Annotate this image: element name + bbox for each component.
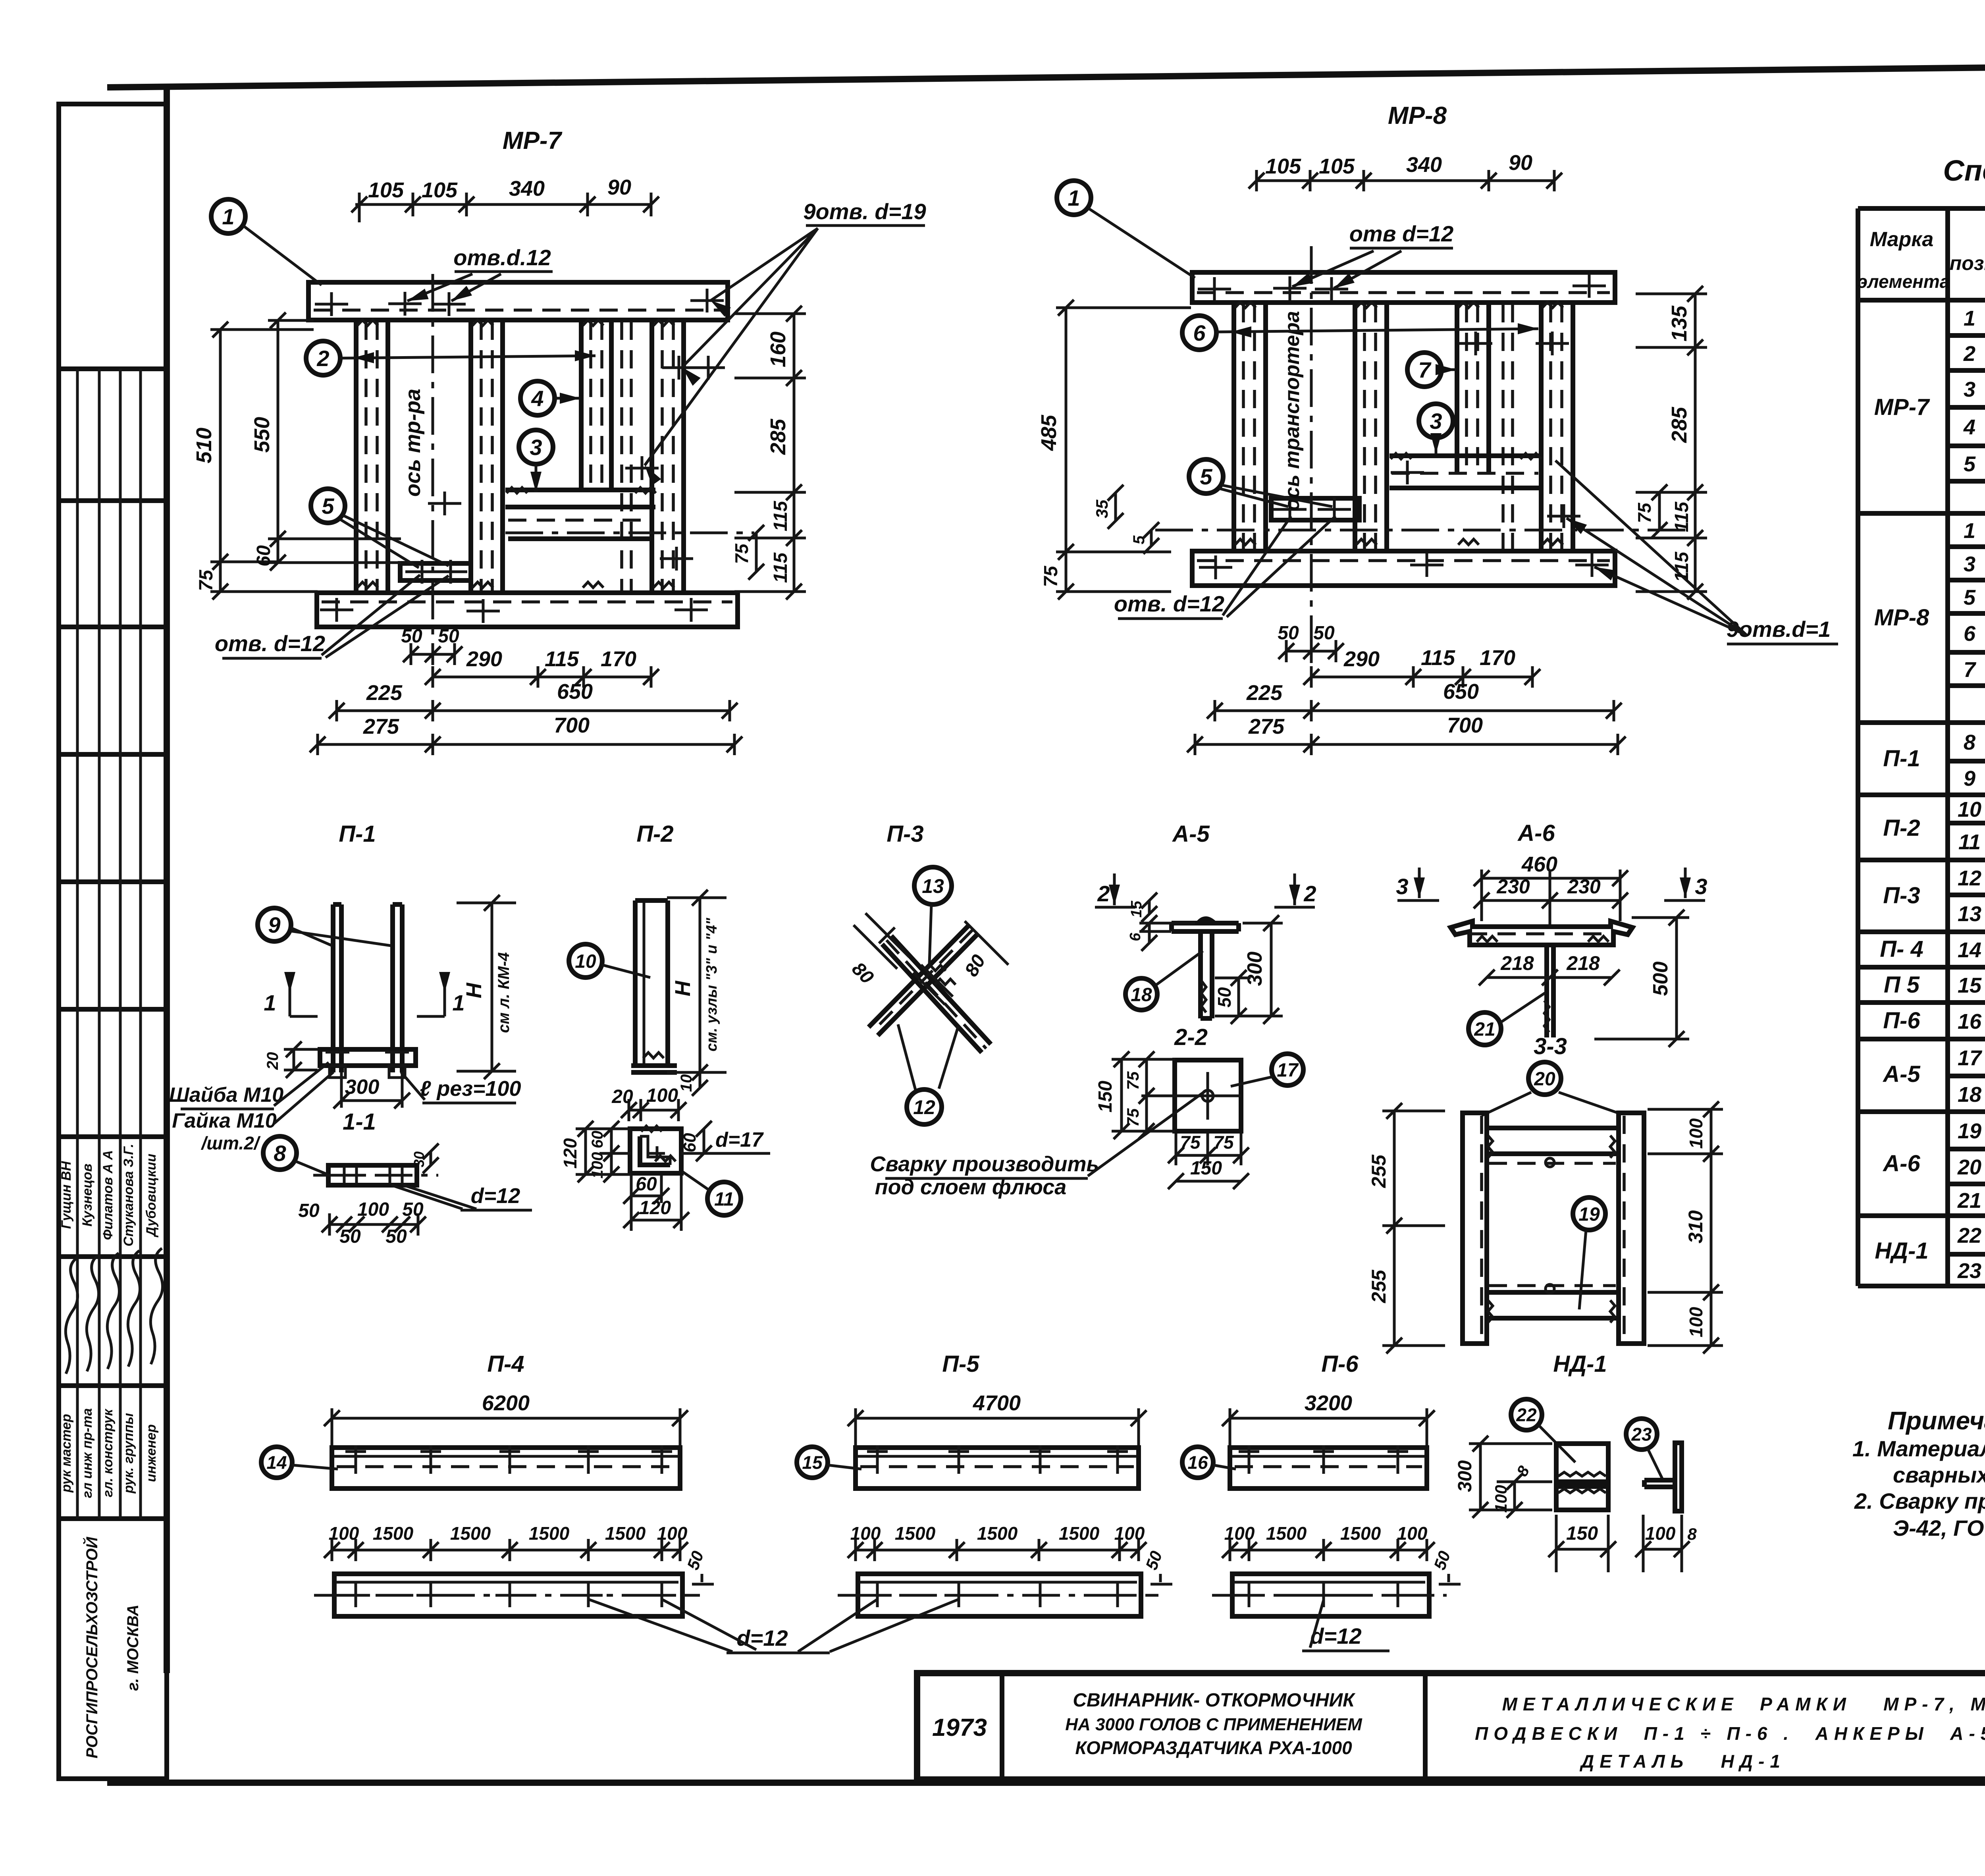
- P-1 dim 300: [333, 1072, 410, 1109]
- svg-text:d=17: d=17: [715, 1128, 764, 1151]
- MP-8 member-3 bolt: [1391, 471, 1424, 474]
- svg-text:3: 3: [1964, 552, 1975, 576]
- svg-text:П-1: П-1: [339, 821, 376, 847]
- svg-text:г. МОСКВА: г. МОСКВА: [124, 1604, 142, 1691]
- svg-text:МЕТАЛЛИЧЕСКИЕ РАМКИ МР-7, М: МЕТАЛЛИЧЕСКИЕ РАМКИ МР-7, МР-8.: [1502, 1694, 1985, 1714]
- MP-8 leader circle 1: [1057, 181, 1195, 278]
- svg-text:20: 20: [1957, 1155, 1981, 1179]
- P-1 nuts and washers: [326, 1052, 409, 1078]
- svg-text:120: 120: [560, 1138, 580, 1168]
- svg-text:отв.d.12: отв.d.12: [453, 245, 551, 270]
- P-3 dim ticks and 80 labels: [848, 913, 1008, 988]
- svg-text:50: 50: [1142, 1548, 1166, 1572]
- svg-text:230: 230: [1496, 875, 1530, 898]
- P-3 leader circle 13: [914, 867, 952, 964]
- svg-text:75: 75: [196, 569, 217, 591]
- svg-text:16: 16: [1958, 1010, 1982, 1033]
- svg-text:1: 1: [1964, 519, 1975, 543]
- P-1 note l rez=100: [401, 1072, 521, 1103]
- svg-text:170: 170: [1480, 646, 1515, 670]
- A-6 3-3 holes: [1546, 1158, 1554, 1293]
- svg-text:275: 275: [363, 715, 399, 738]
- P-1 small dim 20 left: [264, 1041, 318, 1078]
- svg-text:3200: 3200: [1305, 1391, 1352, 1415]
- svg-text:15: 15: [1958, 974, 1982, 997]
- P-1 plate thickness dim: [411, 1143, 439, 1173]
- svg-text:90: 90: [1509, 151, 1532, 175]
- table marka element cells: [1874, 394, 1930, 1264]
- svg-text:100: 100: [646, 1085, 678, 1106]
- П-5 thickness dim 50: [1142, 1548, 1172, 1584]
- svg-text:сварных конструкций, ГОСТ 38: сварных конструкций, ГОСТ 380-71.: [1893, 1462, 1985, 1487]
- MP-7 bottom plate pos.1: [317, 593, 738, 627]
- table grid: [1858, 208, 1985, 1286]
- svg-text:50: 50: [1313, 623, 1335, 644]
- MP-8 bottom dim row 225-650: [1207, 680, 1622, 721]
- svg-text:5: 5: [322, 494, 334, 519]
- svg-text:СВИНАРНИК- ОТКОРМОЧНИК: СВИНАРНИК- ОТКОРМОЧНИК: [1073, 1690, 1356, 1711]
- svg-text:1500: 1500: [1340, 1523, 1381, 1544]
- P-1 cross plate pos.8: [320, 1049, 416, 1066]
- A-5 section marks 2: [1095, 873, 1316, 907]
- MP-8 bottom dim row 290-115-170: [1303, 646, 1540, 688]
- svg-text:МР-7: МР-7: [503, 127, 563, 154]
- svg-text:255: 255: [1368, 1269, 1390, 1303]
- svg-text:5: 5: [1200, 464, 1212, 489]
- svg-text:А-5: А-5: [1172, 821, 1210, 847]
- svg-text:15: 15: [1128, 900, 1145, 918]
- svg-text:12: 12: [913, 1096, 935, 1118]
- svg-text:А-5: А-5: [1882, 1061, 1920, 1087]
- d=12 note for P-6: [1302, 1600, 1389, 1651]
- svg-text:18: 18: [1131, 984, 1152, 1005]
- svg-text:3-3: 3-3: [1534, 1033, 1567, 1059]
- svg-text:6: 6: [1193, 320, 1206, 345]
- svg-text:340: 340: [509, 177, 545, 201]
- A-6 dims 230/230: [1474, 870, 1628, 925]
- MP-7 left dimension 550/60: [250, 312, 401, 571]
- ND-1 dim 150: [1548, 1515, 1616, 1572]
- svg-text:3: 3: [1396, 874, 1408, 899]
- svg-text:285: 285: [766, 418, 790, 455]
- П-6 overall dim 3200: [1222, 1391, 1435, 1448]
- svg-text:МР-8: МР-8: [1874, 605, 1929, 630]
- P-1 bottom dims 50-100-50: [298, 1199, 426, 1247]
- svg-text:60: 60: [680, 1133, 700, 1152]
- svg-text:23: 23: [1631, 1424, 1652, 1445]
- svg-text:1500: 1500: [529, 1523, 570, 1544]
- A-5 small dims 15/6: [1127, 893, 1195, 951]
- svg-text:75: 75: [1213, 1132, 1234, 1153]
- svg-text:19: 19: [1958, 1119, 1981, 1143]
- table header text: [1858, 220, 1985, 295]
- MP-7 horizontal member pos.3: [505, 490, 655, 539]
- MP-8 hole note отв d=12 top: [1290, 221, 1453, 293]
- svg-text:Н: Н: [671, 981, 695, 997]
- P-3 plate pos.13: [913, 965, 956, 1005]
- MP-8 short post pos.7: [1457, 303, 1489, 472]
- MP-7 bottom mini dims 50/50: [401, 626, 463, 665]
- svg-text:135: 135: [1667, 305, 1691, 341]
- A-6 3-3 top rung pos.19: [1487, 1128, 1619, 1163]
- svg-text:115: 115: [770, 500, 791, 531]
- P-2 dims 20/100: [611, 1085, 686, 1121]
- MP-7 bottom plate bolts: [320, 598, 708, 623]
- svg-text:18: 18: [1958, 1083, 1981, 1107]
- MP-8 small dims 35 and 5: [1093, 485, 1159, 554]
- title block frame: [917, 1673, 1985, 1780]
- P-2 section square with angle pos.11: [630, 1126, 681, 1173]
- П-4 spacing dims: [324, 1523, 688, 1561]
- svg-text:460: 460: [1521, 852, 1557, 876]
- svg-text:8: 8: [274, 1141, 286, 1166]
- svg-text:105: 105: [1319, 154, 1355, 178]
- svg-text:20: 20: [1534, 1068, 1555, 1089]
- П-4 thickness dim 50: [683, 1548, 714, 1584]
- P-3 leader circle 12: [898, 1024, 958, 1124]
- A-5 leader circle 17: [1231, 1054, 1303, 1086]
- P-1 H dimension line: [457, 895, 516, 1079]
- svg-text:4: 4: [531, 386, 543, 411]
- ND-1 dim 100: [1492, 1474, 1552, 1518]
- svg-text:отв d=12: отв d=12: [1349, 221, 1454, 246]
- svg-text:100: 100: [329, 1523, 359, 1544]
- svg-text:Филатов А А: Филатов А А: [100, 1150, 116, 1240]
- svg-text:100: 100: [1114, 1523, 1145, 1544]
- A-5 rod pos.18: [1201, 931, 1212, 1018]
- stamp job titles (rotated): [59, 1408, 159, 1498]
- svg-text:1500: 1500: [450, 1523, 491, 1544]
- svg-text:300: 300: [345, 1076, 380, 1099]
- svg-text:6200: 6200: [482, 1391, 530, 1415]
- svg-text:75: 75: [1180, 1132, 1201, 1153]
- MP-7 right post pos.2: [652, 320, 684, 593]
- svg-text:d=12: d=12: [736, 1625, 788, 1650]
- svg-text:115: 115: [1421, 646, 1455, 670]
- svg-text:160: 160: [766, 332, 790, 367]
- MP-8 middle post pos.6: [1355, 303, 1387, 551]
- P-2 leader circle 11: [682, 1172, 741, 1215]
- svg-text:НД-1: НД-1: [1875, 1238, 1928, 1264]
- svg-text:510: 510: [192, 428, 216, 463]
- П-4 bar bottom view: [314, 1574, 700, 1616]
- svg-text:22: 22: [1516, 1405, 1537, 1425]
- A-5 leader circle 18: [1125, 951, 1203, 1010]
- MP-8 right side bolts: [1459, 332, 1580, 528]
- svg-text:50: 50: [339, 1226, 361, 1247]
- svg-text:5: 5: [1964, 586, 1976, 609]
- svg-text:90: 90: [607, 175, 631, 199]
- svg-text:10: 10: [575, 951, 596, 972]
- svg-text:см. узлы "3" и "4": см. узлы "3" и "4": [703, 918, 720, 1052]
- title block object name: [1065, 1690, 1363, 1758]
- П-6 thickness dim 50: [1430, 1548, 1461, 1584]
- svg-text:13: 13: [922, 875, 944, 897]
- MP-7 horizontal axis: [505, 532, 754, 534]
- П-5 bar bottom view: [838, 1574, 1158, 1616]
- svg-text:инженер: инженер: [144, 1424, 159, 1482]
- svg-text:50: 50: [1430, 1548, 1454, 1572]
- svg-text:20: 20: [611, 1086, 633, 1107]
- svg-text:1500: 1500: [373, 1523, 414, 1544]
- P-2 section dims left 120/60/100: [560, 1121, 631, 1182]
- A-6 3-3 bottom rung pos.19: [1487, 1286, 1619, 1323]
- svg-text:17: 17: [1958, 1046, 1983, 1070]
- MP-7 leader circle 1: [211, 199, 322, 285]
- svg-text:9: 9: [1964, 767, 1975, 791]
- svg-text:П-3: П-3: [1883, 883, 1920, 908]
- P-3 crossing bars pos.12: [869, 926, 991, 1053]
- svg-text:НД-1: НД-1: [1553, 1351, 1607, 1377]
- svg-text:50: 50: [298, 1200, 320, 1221]
- svg-text:700: 700: [554, 713, 590, 737]
- svg-text:9отв. d=19: 9отв. d=19: [803, 199, 926, 224]
- svg-text:75: 75: [1041, 565, 1062, 587]
- svg-text:МР-7: МР-7: [1874, 394, 1930, 420]
- MP-8 right dimension chain 135-285-115-115: [1636, 286, 1707, 600]
- svg-text:290: 290: [1343, 647, 1380, 671]
- A-5 top plate pos.17: [1172, 919, 1239, 931]
- svg-text:А-6: А-6: [1882, 1151, 1920, 1176]
- svg-text:75: 75: [1634, 502, 1655, 523]
- П-6 spacing dims: [1222, 1523, 1435, 1561]
- svg-text:4700: 4700: [973, 1391, 1021, 1415]
- A-6 hat channel pos.19/20 top view: [1451, 921, 1632, 945]
- svg-text:340: 340: [1406, 153, 1442, 177]
- svg-text:150: 150: [1190, 1158, 1222, 1179]
- svg-text:550: 550: [250, 417, 274, 453]
- MP-7 leader circle 3: [519, 430, 553, 492]
- svg-text:170: 170: [601, 647, 636, 671]
- svg-text:П-5: П-5: [942, 1351, 979, 1377]
- ND-1 dim 300: [1455, 1436, 1552, 1518]
- ND-1 leader circle 22: [1511, 1399, 1575, 1462]
- table row data: [1957, 307, 1985, 1283]
- svg-text:ПОДВЕСКИ П-1 ÷ П-6 . АНКЕРЫ: ПОДВЕСКИ П-1 ÷ П-6 . АНКЕРЫ А-5, А-6.: [1475, 1723, 1985, 1744]
- svg-text:35: 35: [1093, 499, 1111, 518]
- stamp organization text (rotated): [82, 1537, 142, 1758]
- svg-text:500: 500: [1649, 962, 1672, 996]
- svg-text:П- 4: П- 4: [1880, 936, 1923, 962]
- svg-text:8: 8: [1964, 731, 1975, 754]
- MP-8 bottom plate pos.1: [1192, 551, 1615, 586]
- A-5 base plate 2-2 view: [1141, 1060, 1241, 1131]
- svg-text:см л. КМ-4: см л. КМ-4: [495, 952, 513, 1033]
- MP-7 hidden angle dashed pair: [622, 322, 631, 592]
- svg-text:650: 650: [557, 680, 593, 704]
- svg-text:100: 100: [357, 1199, 389, 1220]
- svg-text:105: 105: [1265, 154, 1301, 178]
- svg-text:/шт.2/: /шт.2/: [200, 1133, 260, 1153]
- P-1 note Гайка М10: [172, 1072, 333, 1153]
- A-6 3-3 right angle pos.20: [1619, 1113, 1644, 1344]
- svg-text:1500: 1500: [1059, 1523, 1100, 1544]
- svg-text:Гущин ВН: Гущин ВН: [59, 1161, 74, 1229]
- svg-text:Гайка М10: Гайка М10: [172, 1109, 277, 1132]
- A-6 leader circle 19: [1573, 1197, 1605, 1309]
- svg-text:РОСГИПРОСЕЛЬХОЗСТРОЙ: РОСГИПРОСЕЛЬХОЗСТРОЙ: [82, 1537, 101, 1758]
- svg-text:100: 100: [1686, 1118, 1706, 1149]
- svg-text:3: 3: [530, 435, 542, 460]
- MP-7 leader circle 4: [520, 381, 580, 415]
- MP-7 hole note отв. d=12 bottom: [215, 575, 449, 658]
- svg-text:19: 19: [1578, 1204, 1600, 1225]
- svg-text:Марка: Марка: [1870, 228, 1934, 251]
- stamp names (rotated): [59, 1144, 159, 1247]
- A-5 dim 300: [1215, 915, 1283, 1024]
- svg-text:100: 100: [657, 1523, 688, 1544]
- svg-text:1: 1: [264, 990, 276, 1015]
- svg-text:КОРМОРАЗДАТЧИКА РХА-1000: КОРМОРАЗДАТЧИКА РХА-1000: [1075, 1737, 1352, 1758]
- A-5 dim 50: [1214, 970, 1251, 1024]
- svg-text:2: 2: [1963, 342, 1975, 366]
- MP-8 weld seams: [1235, 302, 1563, 545]
- svg-text:80: 80: [961, 951, 990, 980]
- MP-8 bottom plate bolts: [1199, 553, 1609, 579]
- A-6 leader circle 21: [1469, 993, 1546, 1045]
- svg-text:225: 225: [366, 681, 403, 705]
- A-5 2-2 left dims 150/75/75: [1095, 1051, 1175, 1139]
- P-2 section dims bottom 60/120: [623, 1174, 689, 1231]
- svg-text:100: 100: [1645, 1523, 1676, 1544]
- MP-8 right post pos.6: [1541, 303, 1573, 551]
- svg-text:50: 50: [401, 626, 422, 647]
- MP-8 top plate bolts: [1198, 274, 1606, 301]
- svg-text:под слоем флюса: под слоем флюса: [875, 1175, 1067, 1199]
- svg-text:гл. конструк: гл. конструк: [100, 1408, 116, 1497]
- MP-7 vertical axis (ось тр-ра): [401, 274, 433, 659]
- svg-text:6: 6: [1127, 933, 1144, 941]
- svg-text:21: 21: [1957, 1189, 1981, 1213]
- П-4 angle bar top view pos.14: [332, 1445, 680, 1488]
- svg-text:отв. d=12: отв. d=12: [215, 631, 325, 656]
- MP-7 right side bolt holes: [625, 356, 725, 571]
- MP-7 bottom dim row 290-115-170: [425, 647, 659, 688]
- svg-text:1. Материал конструкций- стал: 1. Материал конструкций- сталь марки ВСт…: [1852, 1436, 1985, 1461]
- svg-text:1500: 1500: [605, 1523, 646, 1544]
- svg-text:275: 275: [1248, 715, 1285, 738]
- svg-text:100: 100: [1397, 1523, 1428, 1544]
- P-1 note Шайба М10: [169, 1062, 329, 1109]
- svg-text:75: 75: [1124, 1071, 1142, 1090]
- MP-8 leader circle 3: [1419, 404, 1453, 454]
- svg-text:300: 300: [1243, 952, 1266, 986]
- svg-text:60: 60: [589, 1131, 606, 1149]
- svg-text:22: 22: [1957, 1224, 1981, 1247]
- P-2 H dimension: [667, 890, 727, 1080]
- svg-text:150: 150: [1566, 1523, 1598, 1544]
- svg-text:Стуканова З.Г.: Стуканова З.Г.: [121, 1144, 136, 1247]
- svg-text:1: 1: [1068, 185, 1080, 210]
- MP-7 bottom dim row 225-650: [329, 680, 738, 721]
- svg-text:ось тр-ра: ось тр-ра: [401, 389, 425, 497]
- MP-7 middle post pos.2: [471, 320, 503, 593]
- svg-text:100: 100: [1686, 1307, 1706, 1337]
- MP-7 top dimension chain 105-105-340-90: [351, 175, 659, 222]
- svg-text:285: 285: [1667, 407, 1691, 443]
- П-6 bar bottom view: [1212, 1574, 1447, 1616]
- svg-text:1500: 1500: [977, 1523, 1018, 1544]
- A-6 section marks 3: [1396, 868, 1707, 900]
- svg-text:П 5: П 5: [1884, 972, 1920, 998]
- A-6 3-3 right dims 100/310/100: [1648, 1101, 1723, 1353]
- svg-text:2-2: 2-2: [1174, 1024, 1208, 1050]
- svg-text:отв. d=12: отв. d=12: [1114, 591, 1224, 616]
- П-4 overall dim 6200: [324, 1391, 688, 1448]
- svg-text:60: 60: [636, 1174, 657, 1195]
- svg-text:1500: 1500: [1266, 1523, 1307, 1544]
- MP-7 short post pos.4: [581, 320, 611, 490]
- MP-8 hole note 9отв.d=19 bottom right: [1555, 461, 1838, 644]
- MP-7 right dimension chain 160-285-115-115: [734, 306, 806, 600]
- svg-text:3: 3: [1695, 874, 1707, 899]
- svg-text:14: 14: [266, 1452, 287, 1473]
- P-2 section dims right 60 d=17: [680, 1121, 770, 1161]
- MP-8 left post pos.6: [1234, 303, 1266, 551]
- P-2 dim 10: [678, 1072, 708, 1096]
- П-5 angle bar top view pos.15: [856, 1445, 1139, 1488]
- A-6 3-3 left dims 255/255: [1368, 1103, 1445, 1353]
- svg-text:5: 5: [1964, 452, 1976, 476]
- svg-text:1: 1: [1964, 307, 1975, 330]
- svg-text:П-2: П-2: [1883, 815, 1920, 841]
- svg-text:50: 50: [1214, 987, 1235, 1008]
- svg-text:80: 80: [848, 958, 877, 988]
- title block sheet name: [1475, 1694, 1985, 1772]
- svg-text:П-2: П-2: [636, 821, 673, 847]
- svg-text:218: 218: [1500, 952, 1534, 974]
- svg-text:Сварку производить: Сварку производить: [870, 1152, 1099, 1176]
- svg-text:150: 150: [1095, 1081, 1116, 1112]
- svg-text:7: 7: [1964, 658, 1977, 682]
- A-6 leader circle 20: [1482, 1062, 1620, 1116]
- MP-8 bottom mini dims 50/50: [1278, 623, 1344, 662]
- MP-7 left dimension 510/75: [192, 322, 318, 600]
- svg-text:485: 485: [1037, 415, 1061, 451]
- A-6 dim 460: [1474, 852, 1628, 921]
- svg-text:5: 5: [1130, 535, 1148, 544]
- svg-text:17: 17: [1277, 1060, 1299, 1081]
- svg-text:310: 310: [1684, 1210, 1707, 1244]
- svg-text:50: 50: [402, 1199, 424, 1220]
- svg-text:Кузнецов: Кузнецов: [80, 1164, 95, 1227]
- A-6 central rod pos.21: [1544, 947, 1553, 1037]
- svg-text:8: 8: [1687, 1525, 1697, 1543]
- svg-text:3: 3: [1964, 378, 1975, 401]
- svg-text:2: 2: [1303, 881, 1316, 906]
- MP-8 top plate pos.1: [1192, 272, 1615, 303]
- svg-text:225: 225: [1246, 681, 1283, 705]
- svg-text:15: 15: [802, 1452, 823, 1473]
- svg-text:7: 7: [1418, 357, 1432, 382]
- MP-7 leader circle 2: [306, 341, 595, 375]
- svg-text:гл инж пр-та: гл инж пр-та: [80, 1408, 95, 1498]
- svg-text:4: 4: [1963, 415, 1975, 439]
- P-1 leader circle 9: [258, 908, 391, 946]
- svg-text:115: 115: [545, 647, 579, 671]
- MP-7 hole note отв.d=12 top: [405, 245, 553, 306]
- svg-text:13: 13: [1958, 902, 1981, 926]
- П-4 leader circle 14: [261, 1447, 338, 1478]
- svg-text:115: 115: [1671, 551, 1692, 582]
- ND-1 leader circle 23: [1626, 1419, 1663, 1481]
- MP-8 left dimension 485/75: [1037, 300, 1191, 600]
- svg-text:23: 23: [1957, 1259, 1981, 1283]
- svg-text:11: 11: [1958, 830, 1981, 854]
- svg-text:115: 115: [770, 552, 791, 583]
- svg-text:Н: Н: [462, 983, 486, 999]
- svg-text:Спецификация стальных элемен: Спецификация стальных элементов: [1943, 154, 1985, 187]
